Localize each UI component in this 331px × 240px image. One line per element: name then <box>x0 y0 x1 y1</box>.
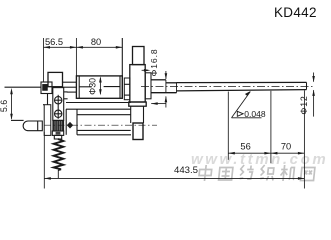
wire centerline lower <box>44 124 157 126</box>
node dim 5.6 <box>11 91 13 119</box>
wire ext line right / cylinder edge <box>121 38 123 98</box>
node foot <box>133 123 143 140</box>
node hatch block <box>53 121 64 131</box>
svg-text:Φ16.8: Φ16.8 <box>149 48 159 76</box>
watermark char wang <box>301 168 315 181</box>
wire hub arrow upper <box>142 69 148 71</box>
node flange <box>130 65 145 102</box>
cylinder phi30 <box>76 76 122 98</box>
watermark char fang <box>240 165 254 179</box>
svg-text:5.6: 5.6 <box>0 100 9 112</box>
wire spring tail <box>57 170 59 178</box>
node dim 443.5 <box>43 132 45 189</box>
node left bracket <box>44 105 51 136</box>
svg-text:Φ30: Φ30 <box>88 78 98 95</box>
node block <box>48 72 63 86</box>
spring <box>54 139 64 170</box>
svg-text:56: 56 <box>240 142 250 152</box>
node tolerance 0.048 <box>232 117 262 119</box>
wire ext line 56.5 left <box>43 38 45 82</box>
node pin <box>23 121 42 131</box>
wire bottom-left ledge <box>11 119 24 121</box>
watermark char zhi <box>260 165 275 181</box>
node clamp <box>41 82 52 94</box>
node clevis <box>124 78 130 100</box>
node collar <box>52 131 63 135</box>
node post <box>133 47 145 65</box>
watermark www <box>191 151 328 168</box>
shaft long <box>177 81 307 83</box>
title KD442 <box>274 5 317 20</box>
node screw 1 <box>55 97 62 104</box>
wire ext line mid <box>75 38 77 76</box>
svg-text:0.048: 0.048 <box>244 109 266 119</box>
svg-text:70: 70 <box>281 142 291 152</box>
wire top dimension line <box>44 46 123 48</box>
svg-text:56.5: 56.5 <box>45 37 63 47</box>
wire hub arrow lower <box>151 103 166 105</box>
wire rod to cylinder <box>63 81 77 83</box>
node diamond nut <box>67 122 73 129</box>
node dim 56 / 70 <box>228 152 304 154</box>
svg-text:443.5: 443.5 <box>174 165 198 176</box>
svg-text:80: 80 <box>91 37 101 47</box>
watermark char ji <box>280 165 296 181</box>
node bracket body <box>130 106 132 123</box>
wire ext lines bottom right <box>227 92 229 160</box>
watermark char zhong <box>198 165 212 181</box>
wire slide lines <box>66 102 131 104</box>
node dim phi16.8 <box>165 71 167 79</box>
watermark char guo <box>219 168 233 181</box>
node dim phi12 <box>313 73 315 82</box>
node screw 2 <box>55 110 62 117</box>
wire left rod <box>5 86 42 88</box>
node hub <box>145 73 151 99</box>
svg-text:Φ12: Φ12 <box>299 95 309 114</box>
shaft thick section <box>151 79 166 81</box>
node plate <box>53 88 64 121</box>
wire shaft centerline <box>141 86 315 88</box>
